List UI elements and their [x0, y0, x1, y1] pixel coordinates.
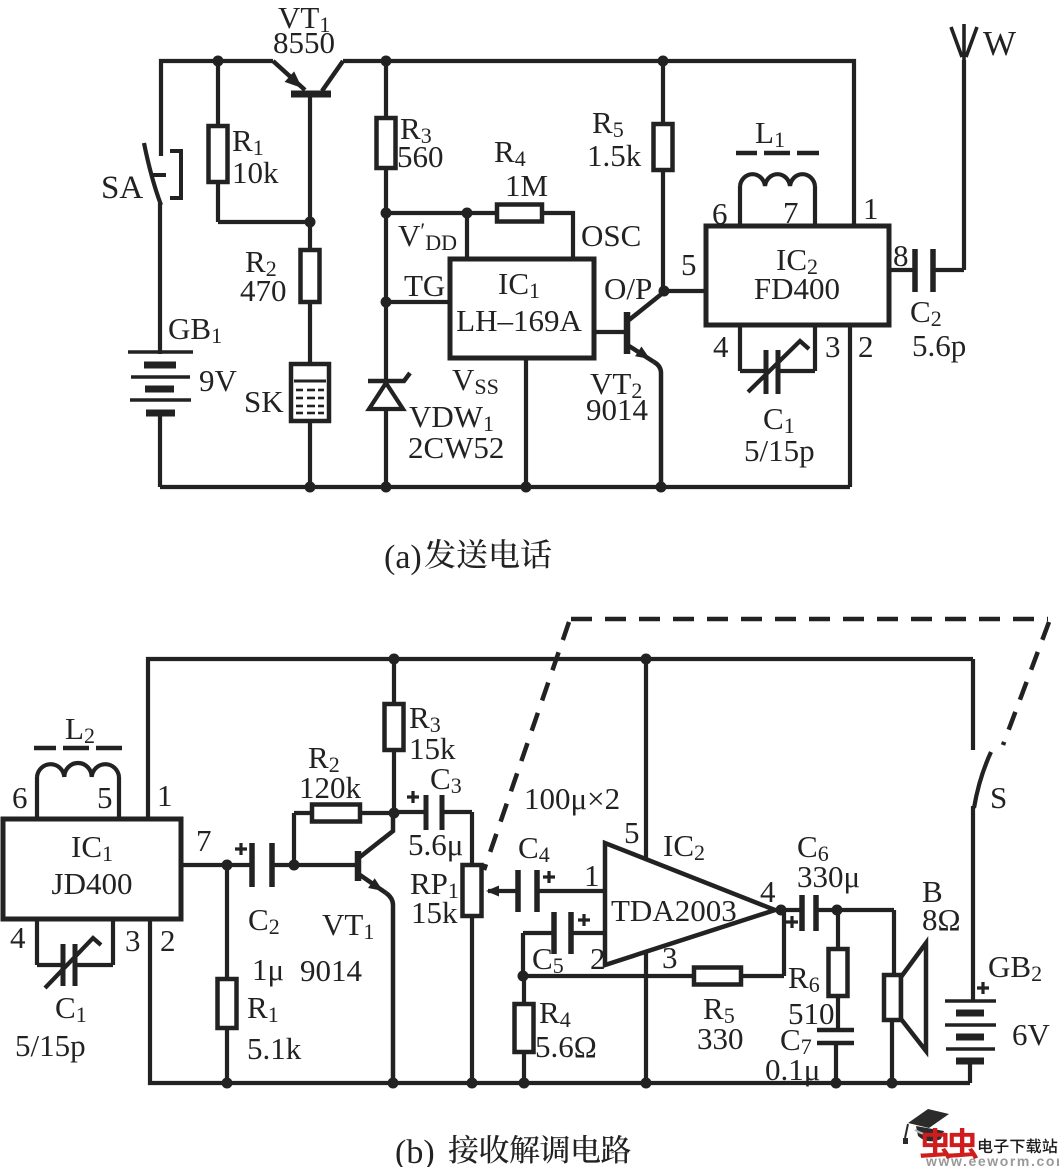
svg-text:470: 470 [240, 273, 287, 308]
svg-text:6: 6 [12, 780, 28, 815]
svg-text:3: 3 [125, 923, 141, 958]
svg-text:560: 560 [397, 139, 444, 174]
svg-text:7: 7 [783, 195, 799, 230]
svg-text:5/15p: 5/15p [744, 433, 815, 468]
svg-text:3: 3 [825, 329, 841, 364]
svg-text:5: 5 [97, 780, 113, 815]
svg-text:1: 1 [584, 858, 600, 893]
svg-text:15k: 15k [411, 895, 458, 930]
svg-text:8Ω: 8Ω [922, 902, 961, 937]
svg-text:100μ×2: 100μ×2 [524, 781, 620, 816]
svg-text:1.5k: 1.5k [587, 138, 642, 173]
svg-text:3: 3 [662, 940, 678, 975]
svg-text:8550: 8550 [273, 25, 335, 60]
svg-text:0.1μ: 0.1μ [765, 1052, 820, 1087]
svg-text:330: 330 [697, 1021, 744, 1056]
svg-text:SK: SK [244, 384, 284, 419]
svg-text:OSC: OSC [581, 218, 641, 253]
svg-text:8: 8 [893, 238, 909, 273]
svg-text:W: W [983, 24, 1016, 63]
svg-text:S: S [990, 780, 1007, 815]
svg-text:4: 4 [713, 329, 729, 364]
svg-text:1M: 1M [505, 168, 548, 203]
svg-text:5.1k: 5.1k [247, 1031, 302, 1066]
svg-text:SA: SA [101, 170, 143, 206]
svg-text:5/15p: 5/15p [15, 1028, 86, 1063]
svg-text:120k: 120k [299, 770, 362, 805]
svg-text:5.6Ω: 5.6Ω [535, 1029, 597, 1064]
svg-text:9014: 9014 [586, 392, 649, 427]
svg-text:2: 2 [160, 923, 176, 958]
svg-text:9014: 9014 [300, 953, 363, 988]
svg-text:6V: 6V [1012, 1017, 1051, 1052]
svg-text:4: 4 [10, 920, 26, 955]
svg-text:JD400: JD400 [52, 866, 133, 901]
svg-text:7: 7 [196, 823, 212, 858]
svg-text:2: 2 [590, 941, 606, 976]
svg-text:1: 1 [863, 191, 879, 226]
svg-text:TDA2003: TDA2003 [611, 893, 737, 928]
svg-text:2CW52: 2CW52 [408, 430, 504, 465]
svg-text:2: 2 [858, 329, 874, 364]
svg-text:10k: 10k [232, 155, 279, 190]
svg-text:www.eeworm.com: www.eeworm.com [925, 1153, 1059, 1167]
svg-text:1μ: 1μ [252, 952, 284, 987]
svg-text:(a): (a) [384, 539, 422, 576]
svg-text:5: 5 [681, 247, 697, 282]
svg-text:4: 4 [760, 874, 776, 909]
svg-text:1: 1 [157, 778, 173, 813]
svg-text:FD400: FD400 [754, 271, 840, 306]
svg-text:9V: 9V [199, 363, 238, 398]
svg-text:5.6p: 5.6p [912, 328, 966, 363]
svg-text:O/P: O/P [604, 271, 652, 306]
svg-text:6: 6 [712, 196, 728, 231]
svg-text:5.6μ: 5.6μ [408, 827, 463, 862]
svg-text:5: 5 [624, 815, 640, 850]
svg-text:TG: TG [404, 268, 445, 303]
svg-text:330μ: 330μ [797, 859, 860, 894]
svg-text:LH–169A: LH–169A [456, 303, 582, 338]
svg-text:(b): (b) [395, 1134, 435, 1167]
